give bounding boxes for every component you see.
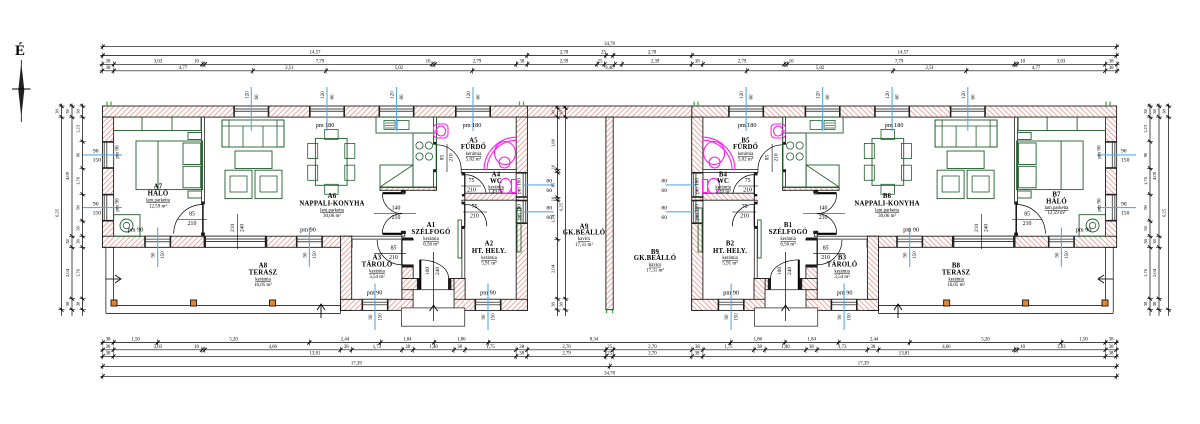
north wall over carports	[527, 106, 691, 117]
cooktop burners	[796, 142, 803, 149]
svg-text:2,44: 2,44	[341, 338, 350, 343]
svg-text:A3: A3	[373, 255, 382, 262]
window 90x150 west upper	[1106, 142, 1117, 169]
wall: north exterior	[103, 106, 528, 117]
svg-text:pm 90: pm 90	[115, 145, 121, 159]
svg-text:17,39: 17,39	[351, 362, 362, 367]
svg-text:210: 210	[188, 221, 197, 227]
wardrobe	[1018, 117, 1105, 130]
entry steps	[765, 290, 806, 308]
svg-text:80: 80	[546, 206, 552, 212]
svg-text:A7: A7	[154, 184, 163, 191]
svg-text:120: 120	[321, 91, 326, 99]
svg-text:85: 85	[765, 155, 771, 161]
svg-text:3,54 m²: 3,54 m²	[369, 274, 385, 280]
svg-text:1,49 m²: 1,49 m²	[715, 189, 731, 195]
svg-text:38: 38	[76, 239, 81, 244]
svg-text:75: 75	[745, 178, 751, 184]
svg-text:25: 25	[601, 51, 606, 56]
svg-text:38: 38	[520, 60, 525, 65]
svg-text:38: 38	[695, 352, 700, 357]
door 85x210 bedroom	[1015, 204, 1017, 233]
entry steps arrow left	[433, 252, 435, 321]
svg-text:2,39: 2,39	[560, 60, 569, 65]
window 120x60 north at 251.3	[950, 106, 985, 117]
svg-text:58: 58	[1143, 226, 1148, 231]
svg-text:60: 60	[546, 188, 552, 194]
door 85x210 bathroom	[758, 145, 783, 170]
svg-text:13,81: 13,81	[310, 352, 321, 357]
svg-text:38: 38	[551, 110, 556, 115]
sliding terrace door 210x240	[953, 236, 1014, 247]
svg-text:kerámia: kerámia	[369, 270, 385, 275]
window 120x60 north at 251.3	[234, 106, 269, 117]
svg-text:90: 90	[303, 252, 308, 258]
svg-text:38: 38	[1152, 301, 1157, 306]
svg-text:B8: B8	[952, 263, 961, 270]
svg-text:lam.parketta: lam.parketta	[320, 209, 345, 214]
svg-text:60: 60	[661, 188, 667, 194]
svg-text:1,75: 1,75	[724, 345, 733, 350]
svg-text:2,79: 2,79	[473, 60, 482, 65]
svg-text:kavics: kavics	[578, 237, 590, 242]
svg-text:38: 38	[757, 345, 762, 350]
svg-text:150: 150	[1121, 158, 1130, 164]
svg-text:10: 10	[194, 345, 199, 350]
svg-text:34,78: 34,78	[604, 372, 615, 377]
svg-text:5,20: 5,20	[981, 338, 990, 343]
svg-text:1,86: 1,86	[457, 338, 466, 343]
wall: living room / hall	[783, 187, 839, 190]
wall: wc / utility room	[703, 193, 754, 200]
svg-text:B3: B3	[838, 255, 847, 262]
entry steps arrow right	[785, 252, 787, 321]
svg-text:3,03: 3,03	[154, 345, 163, 350]
svg-text:HT. HELY.: HT. HELY.	[713, 248, 747, 255]
svg-text:210: 210	[449, 153, 455, 161]
window 80x60 east upper	[692, 173, 703, 198]
svg-text:5,20: 5,20	[229, 338, 238, 343]
svg-text:38: 38	[65, 109, 70, 114]
right unit furniture (mirrored)	[698, 117, 1105, 258]
window 80x60 east upper	[516, 173, 527, 198]
svg-text:38: 38	[695, 60, 700, 65]
svg-text:pm 90: pm 90	[1076, 226, 1092, 233]
top dimension line 3	[100, 63, 1120, 65]
svg-text:10: 10	[1020, 345, 1025, 350]
window 120x60 north at 473.0	[456, 106, 491, 117]
svg-text:TÁROLÓ: TÁROLÓ	[827, 261, 858, 269]
blue window axis lines east	[523, 184, 554, 186]
hall cabinet	[758, 220, 762, 258]
svg-text:pm 180: pm 180	[695, 204, 701, 220]
svg-text:85: 85	[189, 212, 195, 218]
svg-text:lam.parketta: lam.parketta	[146, 199, 171, 204]
window 120x60 north at 396.5	[379, 106, 414, 117]
entry door 100x240	[798, 260, 800, 290]
door 75x210 wc	[462, 173, 465, 176]
window 120x60 north at 473.0	[729, 106, 764, 117]
bottom dimension line 5 (34,78)	[100, 375, 1119, 377]
partition: hall west jambs	[402, 190, 405, 194]
svg-text:90: 90	[93, 201, 99, 207]
terrace edge lines	[1105, 247, 1107, 305]
partition: living room / bathroom	[783, 117, 786, 144]
svg-text:60: 60	[661, 215, 667, 221]
svg-text:150: 150	[735, 313, 740, 321]
svg-text:210: 210	[821, 255, 830, 261]
svg-text:2,78: 2,78	[648, 51, 657, 56]
svg-text:GK.BEÁLLÓ: GK.BEÁLLÓ	[563, 228, 605, 236]
svg-text:150: 150	[93, 158, 102, 164]
svg-text:150: 150	[848, 313, 853, 321]
entry steps	[413, 290, 454, 308]
svg-text:38: 38	[1143, 239, 1148, 244]
wall: storage east with door 85x210	[402, 238, 413, 241]
svg-text:38: 38	[551, 302, 556, 307]
svg-text:B7: B7	[1052, 192, 1061, 199]
left unit furniture	[114, 117, 521, 258]
svg-text:210: 210	[230, 224, 236, 232]
svg-text:3,03: 3,03	[1057, 60, 1066, 65]
wall: storage south with window 90x150	[806, 299, 879, 310]
armchairs	[967, 170, 994, 198]
svg-text:1,84: 1,84	[403, 338, 412, 343]
blue window axis lines north	[967, 87, 969, 131]
kitchen sink	[384, 121, 395, 130]
svg-text:140: 140	[392, 206, 401, 212]
svg-text:75: 75	[742, 204, 748, 210]
left vertical dimension chains	[82, 104, 84, 316]
terrace entry arrow left	[320, 304, 322, 318]
svg-text:90: 90	[904, 252, 909, 258]
svg-text:TERASZ: TERASZ	[942, 270, 971, 277]
svg-text:2,51: 2,51	[285, 66, 294, 71]
svg-text:38: 38	[871, 345, 876, 350]
svg-text:pm 90: pm 90	[837, 289, 853, 296]
svg-text:TÁROLÓ: TÁROLÓ	[362, 261, 393, 269]
dining table with chairs	[872, 138, 904, 185]
svg-text:B1: B1	[784, 222, 793, 229]
entry door 100x240	[419, 260, 421, 290]
svg-text:75: 75	[469, 178, 475, 184]
svg-text:60: 60	[750, 94, 755, 100]
hall cabinet	[458, 220, 462, 258]
svg-text:30,06 m²: 30,06 m²	[323, 213, 341, 219]
svg-text:210: 210	[819, 215, 828, 221]
svg-text:150: 150	[93, 210, 102, 216]
svg-text:90: 90	[76, 205, 81, 210]
svg-text:38: 38	[559, 110, 564, 115]
svg-text:pm 180: pm 180	[463, 122, 482, 129]
svg-text:38: 38	[106, 352, 111, 357]
partition and door 75x210 hall / utility	[754, 200, 757, 204]
svg-text:38: 38	[1109, 66, 1114, 71]
svg-text:pm 180: pm 180	[885, 122, 904, 129]
svg-text:pm 180: pm 180	[695, 178, 701, 194]
bathroom door rotated labels 85/210	[446, 144, 448, 172]
svg-text:150: 150	[913, 251, 918, 259]
svg-text:210: 210	[392, 215, 401, 221]
svg-text:4,66: 4,66	[268, 345, 277, 350]
svg-text:90: 90	[482, 314, 487, 320]
right unit walls and openings (mirrored)	[692, 106, 1117, 326]
svg-text:10: 10	[194, 60, 199, 65]
svg-text:2,39: 2,39	[651, 60, 660, 65]
svg-text:90: 90	[1121, 201, 1127, 207]
blue window axis lines west	[83, 154, 122, 156]
svg-text:2,70: 2,70	[562, 345, 571, 350]
armchairs	[225, 170, 252, 198]
svg-text:38: 38	[55, 109, 60, 114]
svg-text:240: 240	[435, 267, 441, 275]
door jamb marks	[813, 190, 818, 193]
svg-text:2,78: 2,78	[560, 51, 569, 56]
svg-text:38: 38	[1143, 109, 1148, 114]
svg-text:7,79: 7,79	[895, 60, 904, 65]
blue window axis lines south blocks	[374, 284, 376, 331]
svg-text:38: 38	[106, 60, 111, 65]
svg-text:10: 10	[551, 196, 556, 201]
svg-text:WC: WC	[490, 178, 502, 185]
svg-text:150: 150	[1121, 210, 1130, 216]
svg-text:kerámia: kerámia	[481, 256, 497, 261]
svg-text:A8: A8	[259, 263, 268, 270]
svg-text:pm 180: pm 180	[517, 178, 523, 194]
svg-text:3,54 m²: 3,54 m²	[834, 274, 850, 280]
svg-text:WC: WC	[717, 178, 729, 185]
svg-text:10: 10	[789, 60, 794, 65]
window 90x150 west upper	[103, 142, 114, 169]
svg-text:2,79: 2,79	[738, 60, 747, 65]
svg-text:240: 240	[984, 224, 990, 232]
svg-text:FÜRDŐ: FÜRDŐ	[461, 143, 486, 151]
window 90x150 west lower	[103, 194, 114, 221]
svg-text:25: 25	[598, 60, 603, 65]
svg-text:120: 120	[886, 91, 891, 99]
svg-text:90: 90	[1055, 252, 1060, 258]
central vertical dimension chains	[557, 106, 559, 316]
top dimension line 1 (34,78)	[100, 46, 1119, 48]
svg-text:12,59 m²: 12,59 m²	[1048, 210, 1066, 216]
svg-text:13,81: 13,81	[899, 352, 910, 357]
svg-text:90: 90	[1121, 149, 1127, 155]
svg-text:GK.BEÁLLÓ: GK.BEÁLLÓ	[634, 254, 676, 262]
sofa	[935, 120, 997, 147]
svg-text:A1: A1	[427, 222, 436, 229]
svg-text:210: 210	[974, 224, 980, 232]
wall: east exterior (carport side)	[692, 117, 703, 310]
svg-text:É: É	[15, 42, 25, 59]
svg-text:75: 75	[472, 204, 478, 210]
svg-text:30,06 m²: 30,06 m²	[878, 213, 896, 219]
svg-text:38: 38	[519, 345, 524, 350]
washbasin	[771, 124, 786, 138]
svg-text:150: 150	[1065, 251, 1070, 259]
svg-text:kerámia: kerámia	[722, 256, 738, 261]
svg-text:38: 38	[1152, 239, 1157, 244]
svg-text:3,03: 3,03	[1057, 345, 1066, 350]
wardrobe	[114, 117, 201, 130]
window 80x60 east lower	[516, 200, 527, 223]
svg-text:kerámia: kerámia	[255, 278, 271, 283]
wall: north exterior	[692, 106, 1117, 117]
svg-text:5,02 m²: 5,02 m²	[738, 157, 754, 163]
svg-text:17,39: 17,39	[858, 362, 869, 367]
wall: south exterior	[103, 236, 353, 247]
svg-text:38: 38	[65, 301, 70, 306]
partition: hall west jambs	[814, 190, 817, 194]
svg-text:120: 120	[391, 91, 396, 99]
plant table	[1079, 215, 1105, 237]
svg-text:38: 38	[809, 345, 814, 350]
partition: bedroom / living room	[202, 117, 205, 204]
svg-text:kerámia: kerámia	[466, 152, 482, 157]
svg-text:150: 150	[492, 313, 497, 321]
svg-text:kerámia: kerámia	[780, 237, 796, 242]
door 85x210 bathroom	[436, 145, 461, 170]
svg-text:pm 180: pm 180	[517, 204, 523, 220]
svg-text:1,73: 1,73	[373, 345, 382, 350]
svg-text:NAPPALI-KONYHA: NAPPALI-KONYHA	[854, 201, 919, 208]
wall: wc / utility room	[465, 193, 516, 200]
double bed	[1017, 141, 1084, 190]
svg-text:85: 85	[823, 245, 829, 251]
svg-text:2,70: 2,70	[648, 345, 657, 350]
bottom dimension line 1 (opening axes)	[100, 342, 1119, 344]
wall: storage south with window 90x150	[341, 299, 414, 310]
svg-text:8,34: 8,34	[590, 338, 599, 343]
window 120x60 north at 327.0	[875, 106, 910, 117]
svg-text:1,50: 1,50	[131, 338, 140, 343]
coffee table	[235, 151, 272, 169]
svg-text:38: 38	[1152, 109, 1157, 114]
svg-text:16,05 m²: 16,05 m²	[254, 282, 272, 288]
svg-text:12,59 m²: 12,59 m²	[149, 203, 167, 209]
svg-text:90: 90	[725, 314, 730, 320]
svg-text:kerámia: kerámia	[948, 278, 964, 283]
svg-text:5,02 m²: 5,02 m²	[466, 157, 482, 163]
svg-text:150: 150	[161, 251, 166, 259]
svg-text:pm 90: pm 90	[723, 289, 739, 296]
svg-text:60: 60	[331, 94, 336, 100]
svg-text:NAPPALI-KONYHA: NAPPALI-KONYHA	[299, 201, 364, 208]
right unit window dimension lines (blue)	[666, 87, 1137, 330]
sofa	[222, 120, 284, 147]
svg-text:2,79: 2,79	[562, 352, 571, 357]
svg-text:10: 10	[1020, 60, 1025, 65]
svg-text:10: 10	[426, 60, 431, 65]
wall: storage west	[867, 236, 878, 310]
wall: hall south (entry)	[402, 279, 420, 290]
svg-text:SZÉLFOGÓ: SZÉLFOGÓ	[412, 228, 451, 236]
partition: living room / bathroom	[434, 117, 437, 144]
cooktop burners	[416, 142, 423, 149]
terrace columns right	[944, 300, 950, 306]
svg-text:38: 38	[65, 239, 70, 244]
wall: west exterior	[103, 117, 114, 247]
svg-text:210: 210	[774, 153, 780, 161]
svg-text:80: 80	[661, 179, 667, 185]
double door 140x210 living room-hall	[383, 192, 403, 194]
bedside tables	[1018, 133, 1032, 140]
central dividing wall between carports	[606, 117, 613, 310]
svg-text:60: 60	[971, 94, 976, 100]
svg-text:38: 38	[106, 338, 111, 343]
svg-text:14,57: 14,57	[310, 51, 321, 56]
svg-text:9,40: 9,40	[605, 66, 614, 71]
blue window axis lines south terrace	[157, 228, 159, 268]
window 80x60 east lower	[692, 200, 703, 223]
wall: east exterior (carport side)	[516, 117, 527, 310]
svg-text:17,31 m²: 17,31 m²	[646, 267, 664, 273]
svg-text:100: 100	[425, 267, 431, 275]
corner bathtub	[484, 137, 517, 170]
svg-text:B2: B2	[726, 241, 735, 248]
svg-text:90: 90	[93, 149, 99, 155]
bottom dimension line 2 (room chain)	[100, 349, 1119, 351]
svg-text:100: 100	[777, 267, 783, 275]
svg-text:pm 180: pm 180	[316, 122, 335, 129]
wall: utility block west	[454, 279, 465, 311]
svg-text:A6: A6	[328, 193, 337, 200]
svg-text:38: 38	[559, 302, 564, 307]
door jamb marks	[401, 190, 406, 193]
wall: storage east with door 85x210	[806, 238, 817, 241]
svg-text:120: 120	[740, 91, 745, 99]
window 120x60 north at 327.0	[310, 106, 345, 117]
kitchen corner unit	[380, 165, 413, 187]
toilet	[500, 178, 512, 193]
svg-text:1,40: 1,40	[781, 345, 790, 350]
svg-text:14,57: 14,57	[898, 51, 909, 56]
top dimension line 4	[100, 70, 1120, 72]
svg-text:pm 90: pm 90	[1097, 145, 1103, 159]
svg-text:kerámia: kerámia	[738, 152, 754, 157]
svg-text:210: 210	[743, 188, 752, 194]
blue window axis lines north	[250, 87, 252, 131]
svg-text:34,78: 34,78	[604, 42, 615, 47]
left unit walls and openings	[103, 106, 528, 326]
terrace slope arrow right	[1099, 278, 1113, 280]
svg-text:60: 60	[896, 94, 901, 100]
svg-text:16,05 m²: 16,05 m²	[947, 282, 965, 288]
coffee table	[947, 151, 984, 169]
wall: storage west	[341, 236, 352, 310]
svg-text:5,02: 5,02	[395, 66, 404, 71]
svg-text:210: 210	[740, 214, 749, 220]
svg-text:4,77: 4,77	[1032, 66, 1041, 71]
svg-text:7,79: 7,79	[316, 60, 325, 65]
svg-text:5,91 m²: 5,91 m²	[481, 261, 497, 267]
door 75x210 wc	[754, 173, 757, 176]
svg-text:38: 38	[457, 345, 462, 350]
svg-text:60: 60	[826, 94, 831, 100]
svg-text:150: 150	[313, 251, 318, 259]
svg-text:4,77: 4,77	[179, 66, 188, 71]
svg-text:120: 120	[817, 91, 822, 99]
svg-text:38: 38	[405, 345, 410, 350]
svg-text:HT. HELY.: HT. HELY.	[472, 248, 506, 255]
svg-text:6,56 m²: 6,56 m²	[423, 242, 439, 248]
svg-text:90: 90	[1143, 152, 1148, 157]
double door 140x210 living room-hall	[817, 192, 837, 194]
svg-text:58: 58	[76, 226, 81, 231]
svg-text:120: 120	[467, 91, 472, 99]
terrace slope arrow left	[106, 278, 120, 280]
blue window axis lines east	[666, 184, 697, 186]
dining table with chairs	[315, 138, 347, 185]
